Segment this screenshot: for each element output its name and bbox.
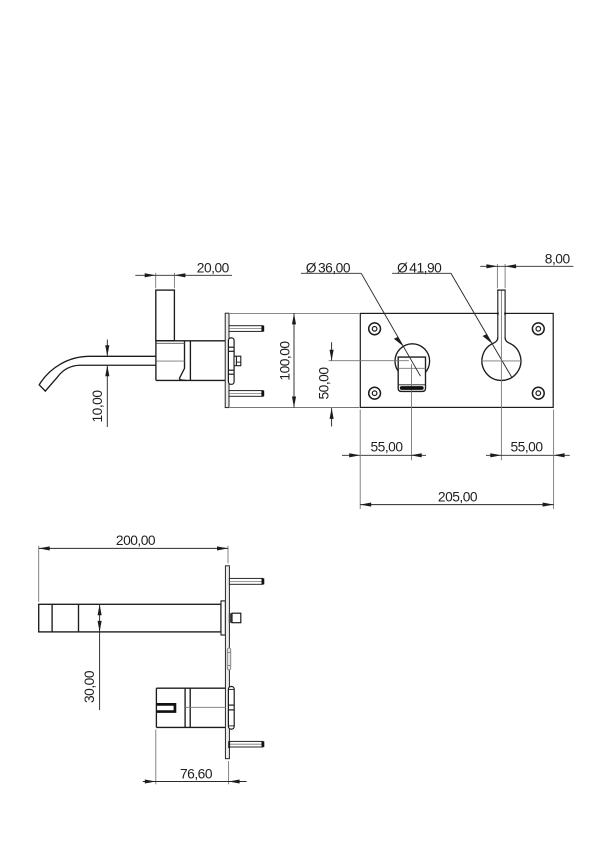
spout (side view) [39,356,156,391]
svg-text:76,60: 76,60 [180,767,213,782]
rear nut assembly (side view) [228,338,234,384]
spout outlet circle (front view) [395,344,430,379]
spout stud behind plate (top view) [229,613,232,623]
aerator slot [400,386,424,390]
junction dots lever/plate [497,313,499,315]
handle circle (front view) [482,343,521,380]
center line handle horizontal [481,360,522,362]
dimension 20,00 extension lines [156,273,175,288]
wall plate (top view) [225,566,229,759]
bottom screw head block at plate [228,741,230,748]
valve slot (top view) [156,703,176,713]
handle lever (front view) [498,290,505,337]
dimension 8,00 arrows [486,264,516,268]
body (side view) [156,341,225,381]
svg-text:8,00: 8,00 [545,252,571,267]
svg-text:100,00: 100,00 [278,341,293,381]
svg-text:55,00: 55,00 [370,440,403,455]
top mounting screw (top view) [229,578,263,584]
screw top-right [532,323,544,335]
center line spout vertical [411,364,413,460]
leader Ø41,90 [392,273,512,377]
dimension 55,00 right [486,454,570,456]
leader Ø36,00 [301,273,421,376]
svg-text:205,00: 205,00 [438,489,478,504]
dimension 100,00 extension lines [230,313,359,407]
body mid line [157,360,185,362]
valve mid line [185,706,225,708]
dimension 8,00 extension lines [497,264,505,288]
rear spindle stud (side view) [234,356,241,366]
dimension 20,00 line [135,274,232,276]
dimension 30,00 [99,604,101,710]
aerator top line [398,384,425,386]
lever (side view) [156,290,175,341]
hidden bracket on plate (top view) [227,648,230,670]
wall plate (side view) [225,313,229,407]
top mounting screw (side view) [229,326,263,332]
dimension 76,60 extension lines [156,730,229,785]
spout tube (top view) [39,604,221,632]
screw bottom-right [532,387,544,399]
handle lever neck shoulders [494,337,510,343]
extension lines plate edges down [360,410,553,510]
spout outlet trim rect [398,357,425,391]
svg-text:200,00: 200,00 [116,533,156,548]
dimension 8,00 line [480,265,573,267]
screw top-left [369,323,381,335]
valve rear capsule (top view) [228,687,234,730]
svg-text:20,00: 20,00 [197,261,230,276]
bottom mounting screw (side view) [229,391,263,397]
dimension 76,60 [143,781,247,783]
valve body (top view) [156,688,225,727]
center line handle vertical [500,291,502,461]
dimension 100,00 line [293,313,295,407]
dimension 200,00 [39,547,228,549]
dimension 200,00 extension lines [39,546,228,602]
bottom mounting screw (top view) [229,741,263,747]
svg-text:10,00: 10,00 [90,390,105,423]
dimension 20,00 arrows [145,273,186,277]
svg-text:50,00: 50,00 [316,367,331,400]
extension line 50,00 horizontal [329,360,409,362]
body cap seam [157,342,185,344]
svg-text:30,00: 30,00 [82,670,97,703]
dimension 205,00 [360,504,553,506]
screw bottom-left [369,387,381,399]
dimension 55,00 left [342,454,426,456]
wall plate (front view) [360,313,553,407]
dimension 50,00 [331,342,333,426]
spout escutcheon flange (top view) [221,601,225,635]
spout trim divider [398,367,425,369]
dimension 100,00 arrows [292,313,296,407]
dimension 10,00 [106,340,108,428]
svg-text:55,00: 55,00 [510,440,543,455]
